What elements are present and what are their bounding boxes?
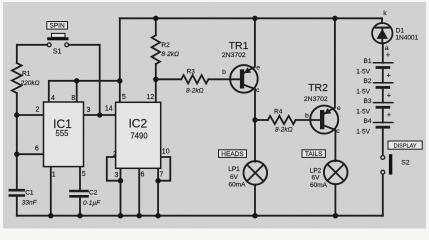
- svg-text:5: 5: [82, 171, 86, 178]
- switch S1 pushbutton cap: [47, 37, 68, 40]
- svg-text:c: c: [256, 87, 260, 94]
- svg-text:2N3702: 2N3702: [222, 52, 246, 59]
- wire R2 bottom to IC2 pin12: [155, 64, 157, 102]
- svg-text:DISPLAY: DISPLAY: [394, 144, 417, 150]
- wire rail to D1: [381, 18, 383, 23]
- svg-text:IC2: IC2: [128, 117, 147, 131]
- svg-text:b: b: [305, 112, 309, 119]
- svg-text:0·1µF: 0·1µF: [83, 200, 101, 207]
- wire IC2 pin7 to 0V: [157, 168, 159, 215]
- wire TR1 collector down: [243, 85, 255, 162]
- switch S1 contacts: [47, 43, 51, 47]
- svg-text:7490: 7490: [130, 131, 148, 140]
- svg-text:3: 3: [115, 172, 119, 179]
- svg-text:S1: S1: [53, 49, 62, 56]
- wire R1 bottom to C1: [16, 93, 18, 188]
- svg-text:B3: B3: [364, 98, 372, 105]
- wire IC2 pin3 to 0V: [120, 168, 122, 215]
- node R2 top rail: [153, 16, 158, 21]
- lamp LP2: [324, 161, 348, 185]
- svg-text:e: e: [337, 105, 341, 112]
- svg-text:2: 2: [35, 107, 39, 114]
- lamp LP1: [244, 161, 268, 185]
- svg-text:2N3702: 2N3702: [304, 96, 328, 103]
- svg-text:e: e: [256, 65, 260, 72]
- node IC2 pin3 loop: [118, 178, 123, 183]
- svg-text:6: 6: [140, 172, 144, 179]
- wire IC2 pin10 loop: [158, 157, 170, 181]
- svg-text:6: 6: [35, 146, 39, 153]
- svg-text:B1: B1: [364, 58, 372, 65]
- node 0V LP1: [252, 213, 257, 218]
- svg-text:c: c: [336, 128, 340, 135]
- wire R2 top stub: [155, 18, 157, 35]
- wire S1 right down to pin3/14 node: [69, 45, 100, 115]
- svg-text:TAILS: TAILS: [305, 151, 323, 158]
- node 0V IC2 pin6: [137, 213, 142, 218]
- TR1 emitter arrowhead: [244, 67, 251, 73]
- wire IC1 pin4: [49, 81, 120, 102]
- node TR1 emitter rail: [252, 16, 257, 21]
- battery B3: [374, 102, 393, 104]
- transistor TR1: [230, 65, 258, 93]
- svg-text:1·5V: 1·5V: [356, 128, 370, 135]
- svg-text:C2: C2: [89, 189, 98, 196]
- transistor TR2: [310, 106, 338, 134]
- svg-text:8·2kΩ: 8·2kΩ: [275, 127, 293, 134]
- resistor R4: [268, 116, 296, 124]
- capacitor C2: [71, 190, 88, 193]
- node TR2 emitter rail: [332, 16, 337, 21]
- svg-text:3: 3: [86, 107, 90, 114]
- svg-text:R2: R2: [161, 42, 170, 49]
- wire C2 to 0V: [79, 198, 81, 216]
- wire IC2 pin5 vertical: [119, 18, 121, 102]
- label SPIN box: [47, 22, 68, 30]
- svg-text:8·2kΩ: 8·2kΩ: [161, 51, 179, 58]
- wire IC1 pin1 to 0V: [50, 167, 52, 216]
- battery B2: [374, 82, 393, 84]
- node TR1 collector / R4: [252, 117, 257, 122]
- wire LP1 to 0V: [254, 185, 256, 216]
- IC1 555: [44, 102, 84, 167]
- svg-text:2: 2: [113, 151, 117, 158]
- wire TR2 emitter to rail: [324, 18, 335, 114]
- battery B1: [374, 62, 393, 64]
- label HEADS box: [219, 150, 247, 158]
- svg-text:12: 12: [147, 94, 155, 101]
- svg-text:1: 1: [52, 172, 56, 179]
- svg-text:60mA: 60mA: [229, 181, 247, 188]
- node R1/C1/pin2: [14, 112, 19, 117]
- svg-text:8: 8: [71, 95, 75, 102]
- svg-text:1N4001: 1N4001: [395, 34, 418, 41]
- svg-text:60mA: 60mA: [310, 182, 328, 189]
- svg-text:k: k: [383, 10, 387, 17]
- diode D1 triangle: [377, 29, 388, 39]
- node 0V C2: [77, 213, 82, 218]
- wire TR2 collector down: [324, 125, 336, 161]
- TR2 emitter arrowhead: [324, 108, 331, 114]
- wire top supply rail: [120, 17, 382, 19]
- wire IC1 pin3 to IC2 pin14: [84, 114, 116, 116]
- svg-text:4: 4: [51, 95, 55, 102]
- resistor R3: [181, 75, 208, 83]
- wire R4 node to R4: [255, 119, 268, 121]
- label TAILS box: [302, 150, 325, 158]
- svg-text:7: 7: [159, 172, 163, 179]
- wire TR1 emitter to rail: [243, 18, 255, 73]
- wire R3 to TR1 base: [208, 78, 240, 80]
- svg-text:6V: 6V: [230, 174, 239, 181]
- svg-text:S2: S2: [401, 160, 410, 167]
- wire IC1 pin5 to C2: [79, 167, 81, 190]
- node IC2 pin7 loop: [155, 178, 160, 183]
- svg-text:33nF: 33nF: [22, 200, 38, 207]
- capacitor C1: [10, 189, 24, 192]
- node 0V IC2 pin3: [118, 213, 123, 218]
- switch S2 actuator bar: [389, 154, 392, 174]
- node 0V LP2: [333, 213, 338, 218]
- svg-text:+: +: [387, 110, 392, 119]
- svg-text:LP1: LP1: [228, 166, 240, 173]
- svg-text:220kΩ: 220kΩ: [20, 80, 40, 87]
- svg-text:HEADS: HEADS: [221, 151, 244, 158]
- wire R4 to TR2 base: [296, 119, 321, 121]
- svg-text:6V: 6V: [312, 175, 321, 182]
- transistor TR1 base bar: [240, 69, 244, 88]
- svg-text:1·5V: 1·5V: [356, 89, 370, 96]
- wire 0V bottom rail: [17, 215, 383, 217]
- wire IC1 pin8 stub: [76, 81, 78, 102]
- node pin3/pin14/S1: [97, 112, 102, 117]
- svg-text:R4: R4: [274, 108, 283, 115]
- svg-text:+: +: [387, 90, 392, 99]
- svg-text:+: +: [387, 70, 392, 79]
- wire IC2 pin2 loop: [107, 157, 121, 181]
- label DISPLAY box: [388, 141, 422, 149]
- wire B4 to S2: [382, 129, 384, 156]
- node 0V IC1 pin1: [48, 213, 53, 218]
- node R2/R3: [153, 77, 158, 82]
- svg-text:SPIN: SPIN: [50, 23, 65, 30]
- IC2 7490: [116, 102, 161, 168]
- svg-text:555: 555: [55, 129, 69, 138]
- diode D1: [372, 23, 392, 43]
- switch S2 contacts: [381, 156, 385, 160]
- svg-text:b: b: [222, 69, 226, 76]
- svg-text:R1: R1: [22, 71, 31, 78]
- wire C1 to 0V rail: [16, 197, 18, 216]
- wire pin2 IC1: [17, 114, 44, 116]
- svg-text:1·5V: 1·5V: [356, 69, 370, 76]
- svg-text:1·5V: 1·5V: [356, 109, 370, 116]
- svg-text:10: 10: [162, 148, 170, 155]
- svg-text:8·2kΩ: 8·2kΩ: [186, 88, 204, 95]
- battery B4: [374, 122, 393, 124]
- node 0V IC2 pin7: [155, 213, 160, 218]
- svg-text:B2: B2: [364, 78, 372, 85]
- svg-text:+: +: [386, 50, 391, 59]
- resistor R1: [12, 63, 22, 93]
- svg-text:14: 14: [105, 105, 113, 112]
- svg-text:C1: C1: [25, 190, 34, 197]
- node pin5 supply: [117, 78, 122, 83]
- wire pin6 IC1: [17, 153, 44, 155]
- svg-text:R3: R3: [187, 69, 196, 76]
- wire S1 left to R1: [17, 45, 48, 63]
- wire IC2 pin6 to 0V: [138, 168, 140, 215]
- node pin8 supply: [74, 78, 79, 83]
- svg-text:LP2: LP2: [310, 167, 322, 174]
- svg-text:TR2: TR2: [308, 82, 328, 94]
- node pin6: [14, 152, 19, 157]
- svg-text:TR1: TR1: [229, 40, 249, 52]
- svg-text:5: 5: [122, 94, 126, 101]
- transistor TR2 base bar: [320, 110, 324, 129]
- wire LP2 to 0V: [334, 184, 336, 216]
- wire D1 to B1: [382, 43, 384, 62]
- wire R2/R3 node to R3: [156, 78, 182, 80]
- resistor R2: [152, 35, 160, 64]
- wire S2 to 0V rail: [381, 174, 384, 216]
- svg-text:B4: B4: [364, 118, 372, 125]
